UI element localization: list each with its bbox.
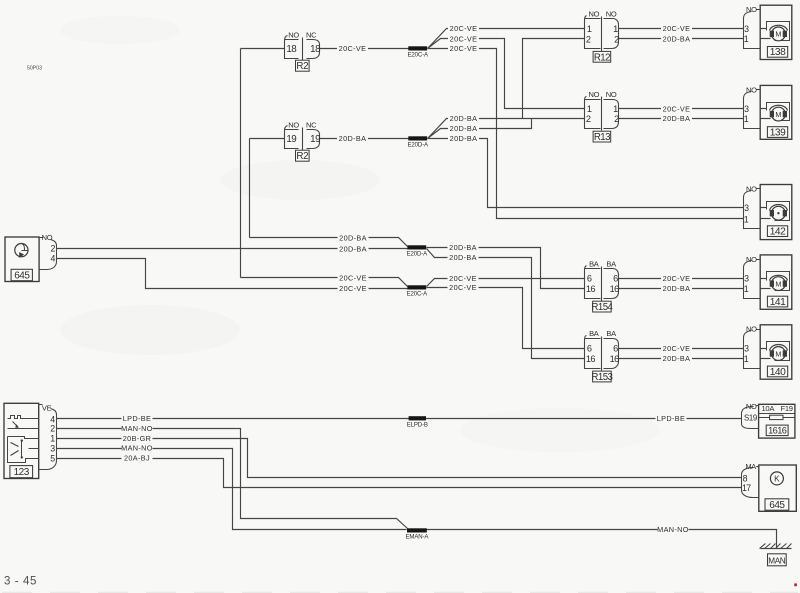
wire 20D-BA splice E20D-A fan row 3, down to 142 pin 3 [428, 134, 744, 208]
connector pair R13 (pins 1/2) [585, 97, 619, 131]
svg-text:138: 138 [770, 47, 786, 58]
svg-text:3: 3 [744, 24, 749, 34]
wire 20C-VE splice E20C-A out row 2, down to R153 pin 6 [427, 283, 585, 349]
wire 20C-VE from R154 pin 6 to motor 141 pin 3 [619, 274, 744, 283]
relay 645 (bottom right, K) [759, 465, 797, 511]
svg-text:MAN-NO: MAN-NO [121, 424, 153, 433]
svg-text:20C-VE: 20C-VE [450, 44, 478, 53]
svg-text:10A: 10A [761, 404, 775, 413]
actuator motor component 141 [760, 255, 792, 309]
svg-text:E20D-A: E20D-A [407, 142, 429, 149]
svg-text:MA-: MA- [745, 462, 758, 471]
control unit 123 (bottom left) [4, 403, 39, 478]
connector pair R2 (pins 19/19) [285, 126, 320, 151]
svg-text:2: 2 [51, 244, 56, 254]
svg-text:R153: R153 [591, 372, 612, 383]
svg-text:E20C-A: E20C-A [407, 52, 429, 59]
svg-text:20C-VE: 20C-VE [663, 274, 691, 283]
wire 20C-VE splice E20C-A fan row 1 to R12 pin 1 [428, 24, 585, 48]
svg-text:19: 19 [310, 134, 320, 145]
wire vertical riser from R2 pin19 down to 20D-BA row [249, 139, 251, 238]
svg-text:20D-BA: 20D-BA [663, 284, 691, 293]
svg-text:M: M [775, 349, 781, 358]
svg-text:645: 645 [14, 271, 30, 282]
number box 138 [767, 47, 787, 59]
svg-text:E20D-A: E20D-A [407, 251, 429, 258]
actuator motor component 140 [760, 325, 792, 379]
svg-text:141: 141 [770, 297, 786, 308]
svg-text:19: 19 [286, 134, 296, 145]
designator box R2 [296, 60, 310, 72]
connector bracket of 139 (pins 3/1) [744, 90, 761, 129]
svg-text:20A-BJ: 20A-BJ [124, 454, 150, 463]
svg-text:140: 140 [770, 367, 786, 378]
svg-text:5: 5 [50, 453, 55, 463]
svg-text:3: 3 [744, 104, 749, 114]
svg-text:142: 142 [770, 227, 786, 238]
svg-text:R12: R12 [594, 52, 610, 63]
timer unit 645 (left) [5, 237, 39, 282]
svg-text:NC: NC [306, 31, 317, 40]
svg-text:20C-VE: 20C-VE [339, 44, 367, 53]
wire MAN-NO from 123 pin 2, down and right to splice EMAN-A [57, 424, 408, 529]
wire 20D-BA from R154 pin 16 to motor 141 pin 1 [619, 284, 744, 293]
svg-text:20D-BA: 20D-BA [449, 253, 477, 262]
wire 20A-BJ from 123 pin 5, down and right to relay 645 pin 17 [57, 454, 742, 488]
svg-text:20D-BA: 20D-BA [339, 233, 367, 242]
svg-text:S19: S19 [744, 414, 757, 423]
svg-text:20D-BA: 20D-BA [663, 354, 691, 363]
wire 20C-VE from R13 pin 1 to motor 139 pin 3 [619, 104, 744, 113]
splice E20C-A [407, 285, 429, 297]
svg-text:MAN-NO: MAN-NO [657, 525, 689, 534]
svg-text:18: 18 [286, 44, 297, 55]
svg-text:NO: NO [606, 10, 617, 19]
svg-text:NO: NO [746, 325, 757, 334]
svg-text:E20C-A: E20C-A [407, 291, 429, 298]
svg-text:2: 2 [586, 34, 591, 44]
svg-text:2: 2 [614, 34, 619, 44]
svg-text:NC: NC [306, 121, 317, 130]
svg-text:R13: R13 [594, 132, 610, 143]
svg-text:20B-GR: 20B-GR [123, 434, 151, 443]
ground MAN [760, 544, 792, 549]
svg-text:20C-VE: 20C-VE [663, 104, 691, 113]
svg-text:1: 1 [744, 114, 749, 124]
svg-text:6: 6 [613, 344, 618, 354]
connector bracket of 138 (pins 3/1) [744, 10, 761, 49]
svg-text:NO: NO [288, 121, 299, 130]
svg-text:NO: NO [746, 5, 757, 14]
red margin mark [794, 583, 797, 586]
svg-text:16: 16 [586, 284, 596, 294]
number box 140 [767, 366, 787, 378]
svg-text:20D-BA: 20D-BA [663, 114, 691, 123]
wire 20D-BA from R13 pin 2 to motor 139 pin 1 [619, 114, 744, 123]
svg-text:NO: NO [746, 85, 757, 94]
wire 20B-GR from 123 pin 1, down and right to relay 645 pin 8 [57, 434, 742, 478]
designator box R12 [593, 51, 611, 63]
wire 20C-VE from R2 pin18 (NC side) to splice E20C-A [320, 44, 409, 53]
wire 20D-BA from R2 pin19 riser to splice E20D-A [250, 233, 408, 246]
wire 20D-BA splice E20D-A out row 1, down to R154 pin 16 [427, 243, 585, 289]
wire 20C-VE splice E20C-A fan row 3, down to 142 pin 1 [428, 44, 744, 219]
svg-text:645: 645 [769, 500, 785, 511]
svg-text:NO: NO [288, 31, 299, 40]
svg-text:R154: R154 [591, 302, 613, 313]
svg-text:R2: R2 [296, 151, 308, 162]
ground label box MAN [768, 554, 787, 566]
svg-text:1: 1 [613, 104, 618, 114]
wire 20C-VE from 645 pin 4, jog down, to splice E20C-A [57, 259, 408, 293]
svg-text:20C-VE: 20C-VE [450, 34, 478, 43]
svg-text:K: K [774, 474, 780, 483]
svg-text:3: 3 [50, 443, 55, 453]
svg-text:NO: NO [42, 233, 53, 242]
svg-text:LPD-BE: LPD-BE [657, 414, 685, 423]
connector pair R12 (pins 1/2) [585, 16, 619, 52]
svg-text:20C-VE: 20C-VE [449, 283, 477, 292]
svg-text:NO: NO [588, 90, 599, 99]
svg-text:3: 3 [744, 274, 749, 284]
number box 142 [767, 226, 787, 238]
wire 20D-BA splice E20D-A fan row 1 to R13 pin 2, branch up to R12 pin 2 [428, 39, 585, 139]
svg-text:NO: NO [746, 184, 757, 193]
svg-text:20C-VE: 20C-VE [449, 274, 477, 283]
wire R2 pin19 left to vertical riser [250, 138, 285, 140]
designator box R13 [593, 131, 611, 143]
svg-text:3: 3 [744, 344, 749, 354]
wire 20D-BA from R12 pin 2 to motor 138 pin 1 [619, 34, 744, 43]
svg-text:2: 2 [50, 424, 55, 434]
svg-text:20C-VE: 20C-VE [450, 24, 478, 33]
svg-text:NO: NO [588, 10, 599, 19]
number box 645 (left) [11, 269, 32, 281]
connector bracket of 142 (pins 3/1) [744, 189, 761, 229]
svg-text:NO: NO [746, 402, 757, 411]
connector pair R153 (pins 6/16) [585, 336, 619, 371]
svg-text:1: 1 [744, 284, 749, 294]
splice E20D-A [407, 245, 429, 257]
svg-text:M: M [775, 110, 781, 119]
svg-text:1: 1 [587, 24, 592, 34]
connector bracket S19 [742, 406, 759, 429]
svg-text:20D-BA: 20D-BA [663, 34, 691, 43]
svg-text:1: 1 [744, 34, 749, 44]
wire 20C-VE splice E20C-A out row 1 to R154 pin 6 [427, 274, 585, 287]
svg-text:3 - 45: 3 - 45 [4, 576, 37, 588]
svg-text:20D-BA: 20D-BA [450, 124, 478, 133]
svg-text:MAN: MAN [768, 556, 785, 565]
svg-text:R2: R2 [296, 61, 308, 72]
svg-text:NO: NO [606, 90, 617, 99]
wire 20C-VE from R12 pin 1 to motor 138 pin 3 [619, 24, 744, 33]
svg-text:8: 8 [743, 473, 748, 483]
svg-text:ELPD-B: ELPD-B [407, 422, 428, 429]
wire R2 pin18 left to vertical riser [241, 48, 285, 50]
connector bracket of 141 (pins 3/1) [744, 260, 761, 299]
svg-text:16: 16 [586, 354, 596, 364]
wire 20C-VE from R2 pin18 riser to splice E20C-A [241, 273, 408, 286]
svg-text:1: 1 [50, 434, 55, 444]
svg-text:18: 18 [310, 44, 321, 55]
svg-text:4: 4 [51, 253, 56, 263]
svg-text:3: 3 [744, 203, 749, 213]
svg-text:20C-VE: 20C-VE [663, 344, 691, 353]
svg-text:BA: BA [606, 259, 616, 268]
svg-text:50P03: 50P03 [27, 66, 42, 72]
svg-text:1: 1 [613, 24, 618, 34]
wire MAN-NO from splice EMAN-A to ground MAN [427, 525, 777, 548]
wire 20D-BA splice E20D-A out row 2, down to R153 pin 16 [427, 249, 585, 359]
number box 123 [10, 466, 33, 479]
svg-text:6: 6 [587, 344, 592, 354]
svg-text:20D-BA: 20D-BA [339, 244, 367, 253]
svg-text:F19: F19 [781, 404, 793, 413]
connector pair R154 (pins 6/16) [585, 266, 619, 302]
svg-text:16: 16 [610, 284, 620, 294]
svg-text:123: 123 [14, 467, 30, 478]
svg-text:BA: BA [589, 329, 599, 338]
designator box R2 [296, 150, 310, 162]
svg-text:139: 139 [770, 127, 786, 138]
svg-text:17: 17 [742, 483, 751, 493]
svg-text:1: 1 [744, 214, 749, 224]
splice EMAN-A [405, 528, 429, 540]
connector bracket of relay 645 (pins 8/17) [742, 467, 759, 498]
svg-text:20D-BA: 20D-BA [450, 134, 478, 143]
designator box R154 [591, 301, 613, 313]
wire 20D-BA from 645 pin 2 to splice E20D-A [57, 244, 408, 253]
svg-text:20D-BA: 20D-BA [449, 243, 477, 252]
svg-text:1: 1 [587, 104, 592, 114]
actuator motor component 138 [760, 5, 792, 59]
svg-text:1616: 1616 [768, 426, 787, 436]
number box 141 [767, 296, 787, 308]
fuse box 1616 with fuse F19 [759, 404, 795, 438]
wire 20D-BA splice E20D-A fan row 2 joining row 1 [428, 119, 532, 139]
splice ELPD-B [407, 416, 428, 428]
wire LPD-BE from 123 pin 4 through splice ELPD-B to fuse S19 [57, 414, 742, 423]
svg-text:20C-VE: 20C-VE [339, 273, 367, 282]
actuator motor component 139 [760, 85, 792, 139]
svg-text:16: 16 [610, 354, 620, 364]
wire 20D-BA from R2 pin19 (NC side) to splice E20D-A [320, 134, 409, 143]
svg-text:2: 2 [614, 114, 619, 124]
svg-text:LPD-BE: LPD-BE [123, 414, 151, 423]
designator box R153 [591, 371, 612, 383]
scan edge artifact [2, 591, 798, 593]
actuator motor component 142 [760, 185, 792, 240]
connector bracket of 645 (pins 2/4) [40, 238, 57, 270]
svg-text:EMAN-A: EMAN-A [405, 534, 429, 541]
svg-text:20C-VE: 20C-VE [663, 24, 691, 33]
connector bracket of 123 (pins 4/2/1/3/5) [39, 405, 57, 470]
svg-text:2: 2 [586, 114, 591, 124]
splice E20C-A [407, 46, 429, 58]
connector pair R2 (pins 18/18) [285, 36, 320, 61]
number box 1616 [766, 425, 788, 436]
svg-text:1: 1 [744, 354, 749, 364]
number box 139 [767, 127, 787, 139]
svg-text:BA: BA [589, 259, 599, 268]
svg-text:M: M [775, 279, 781, 288]
svg-text:VE: VE [42, 403, 52, 412]
wire vertical riser from R2 pin18 down to 20C-VE row [240, 49, 242, 278]
number box 645 (bottom right) [765, 499, 789, 511]
wire 20D-BA from R153 pin 16 to motor 140 pin 1 [619, 354, 744, 363]
splice E20D-A [407, 136, 429, 148]
wire 20C-VE from R153 pin 6 to motor 140 pin 3 [619, 344, 744, 353]
svg-text:20C-VE: 20C-VE [339, 284, 367, 293]
svg-text:BA: BA [606, 329, 616, 338]
connector bracket of 140 (pins 3/1) [744, 330, 761, 369]
svg-text:MAN-NO: MAN-NO [121, 444, 153, 453]
svg-text:6: 6 [587, 274, 592, 284]
wire MAN-NO from 123 pin 3, down and right to splice EMAN-A [57, 444, 407, 530]
svg-text:20D-BA: 20D-BA [450, 114, 478, 123]
svg-text:NO: NO [746, 255, 757, 264]
svg-text:20D-BA: 20D-BA [339, 134, 367, 143]
wire 20C-VE splice E20C-A fan row 2, down to R13 pin 1 [428, 34, 585, 108]
svg-text:M: M [775, 30, 781, 39]
svg-text:6: 6 [613, 274, 618, 284]
